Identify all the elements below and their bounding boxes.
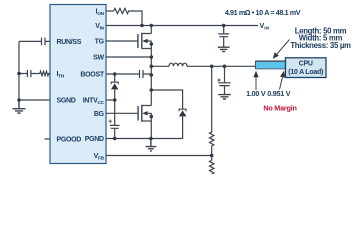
svg-text:BG: BG <box>94 111 105 118</box>
svg-text:SW: SW <box>93 55 104 62</box>
node ION-resistor to VIN junction <box>140 24 144 28</box>
wire rail SW node <box>150 26 152 139</box>
node SW pin junction <box>150 55 154 59</box>
arrow measure right <box>280 76 283 90</box>
node SW-schottky junction <box>150 88 154 92</box>
diode D-BOOST schottky <box>114 74 116 100</box>
svg-text:VIN: VIN <box>260 21 270 31</box>
svg-text:1.00 V: 1.00 V <box>246 89 266 98</box>
node SGND-rail junction <box>17 98 21 102</box>
node INTVCC-cap junction <box>113 98 117 102</box>
node VIN-bypass-cap junction <box>222 24 226 28</box>
node VIN-drain junction <box>150 24 154 28</box>
node BOOST-diode junction <box>113 72 117 76</box>
wire SGND row <box>19 99 50 101</box>
svg-text:RUN/SS: RUN/SS <box>57 39 82 46</box>
wire ION row <box>106 10 114 12</box>
wire ITH row <box>19 73 40 75</box>
node VOUT-cap junction <box>223 65 227 69</box>
resistor R-FB-top <box>210 66 214 160</box>
svg-text:SGND: SGND <box>57 98 76 105</box>
resistor R-ITH <box>40 71 50 75</box>
wire BG row <box>106 112 138 114</box>
svg-text:PGOOD: PGOOD <box>57 137 82 144</box>
capacitor C-INTVCC <box>110 100 119 139</box>
svg-text:CPU: CPU <box>299 61 313 68</box>
op-amp U1 controller IC body <box>50 5 106 164</box>
node Q1 body-source junction <box>150 42 154 46</box>
node PGND-cap junction <box>113 137 117 141</box>
svg-text:4.91 mΩ • 10 A = 48.1 mV: 4.91 mΩ • 10 A = 48.1 mV <box>225 8 301 17</box>
wire TG row <box>106 40 138 42</box>
svg-text:(10 A Load): (10 A Load) <box>288 69 323 76</box>
capacitor C-RUN/SS <box>42 38 46 46</box>
wire VIN row <box>106 25 258 27</box>
ground left <box>13 100 26 113</box>
capacitor C-VIN bypass <box>218 26 229 48</box>
pin labels <box>57 9 105 162</box>
node VOUT-divider junction <box>210 65 214 69</box>
node ITH-rail junction <box>17 72 21 76</box>
diode D1 freewheel schottky <box>151 90 182 109</box>
capacitor C-ITH <box>27 70 31 77</box>
resistor R-FB-bottom <box>210 160 214 174</box>
wire left rail <box>18 41 20 100</box>
wire SW row <box>106 56 151 58</box>
svg-text:TG: TG <box>95 39 105 46</box>
pcb trace bar <box>256 62 286 69</box>
ground C-VIN <box>218 47 230 51</box>
wire INTVCC row <box>106 99 115 101</box>
wire PGND row <box>106 116 183 138</box>
transistor Q1 top MOSFET <box>138 33 142 49</box>
wire VFB row <box>106 155 212 157</box>
CPU load box <box>286 58 327 78</box>
node SW-inductor junction <box>150 65 154 69</box>
node SW-boost-cap junction <box>150 73 154 77</box>
transistor Q2 bottom MOSFET <box>138 105 142 122</box>
node VFB-divider junction <box>210 154 214 158</box>
resistor R-ION <box>114 8 142 25</box>
arrow annotation leader <box>277 40 290 55</box>
wire PGOOD stub <box>45 138 51 140</box>
svg-text:Thickness: 35 µm: Thickness: 35 µm <box>290 41 351 50</box>
capacitor C-BOOST <box>140 70 144 78</box>
svg-text:0.951 V: 0.951 V <box>267 89 290 98</box>
capacitor C-OUT <box>218 66 231 94</box>
svg-text:PGND: PGND <box>85 136 104 143</box>
svg-text:No Margin: No Margin <box>263 104 296 113</box>
wire BOOST row <box>106 73 151 75</box>
node PGND-source junction <box>149 137 153 141</box>
svg-text:BOOST: BOOST <box>80 72 104 79</box>
wire RUN/SS row <box>19 40 50 42</box>
ground PGND <box>146 139 157 152</box>
ground C-OUT <box>218 95 231 99</box>
arrow measure left <box>255 77 257 91</box>
node Q2 body-source junction <box>150 115 154 119</box>
inductor L1 <box>151 65 255 67</box>
